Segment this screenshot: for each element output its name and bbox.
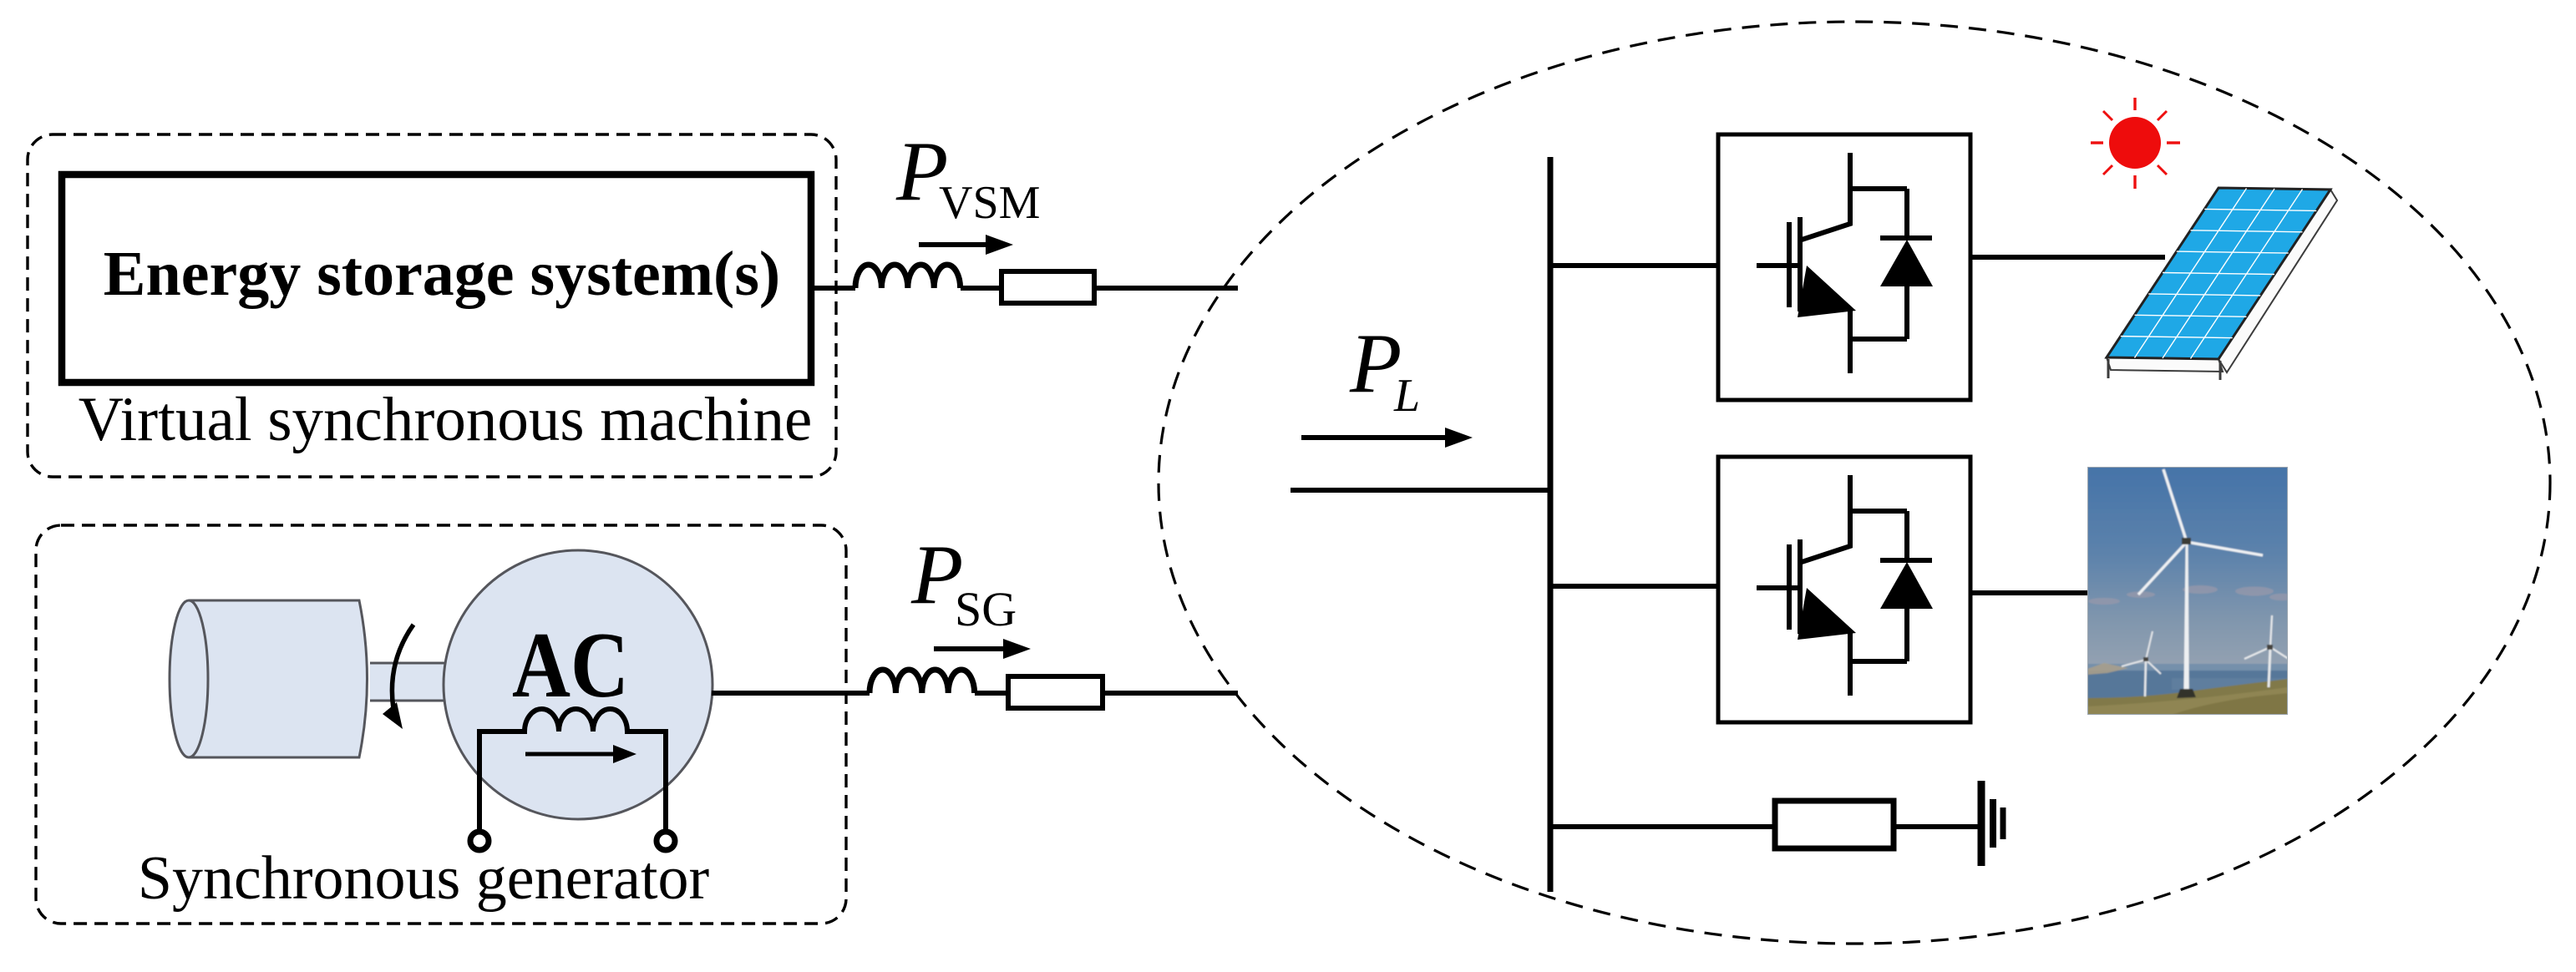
resistor R SG: [1008, 676, 1103, 708]
solar panel: [2107, 188, 2337, 380]
resistor R VSM: [1001, 271, 1094, 303]
wire: [975, 691, 1006, 696]
AC machine circle: [444, 550, 712, 819]
arrow P_VSM: [919, 242, 990, 247]
wire: [1896, 824, 1981, 829]
svg-text:Energy storage system(s): Energy storage system(s): [104, 239, 780, 309]
svg-text:VSM: VSM: [939, 177, 1040, 229]
wire branch 1: [1550, 263, 1718, 268]
arrow P_L: [1301, 435, 1449, 440]
winding arrow: [525, 752, 619, 757]
bus: [1548, 157, 1554, 892]
converter box 2: [1718, 457, 1970, 722]
main turbine: [2183, 544, 2188, 691]
svg-text:SG: SG: [955, 582, 1017, 636]
wind turbine photo: [2087, 467, 2295, 715]
converter box 1: [1718, 134, 1970, 400]
arrow P_SG: [934, 646, 1007, 651]
terminal right: [657, 832, 675, 850]
wire P_L: [1291, 488, 1550, 493]
svg-text:Virtual synchronous machine: Virtual synchronous machine: [79, 385, 813, 454]
sun: [2091, 98, 2180, 189]
wire: [1105, 691, 1238, 696]
energy storage rect: [62, 175, 811, 382]
ground shading under hill: [2172, 693, 2288, 715]
terminal left: [470, 832, 489, 850]
svg-text:Synchronous generator: Synchronous generator: [138, 844, 709, 913]
inductor L VSM: [855, 265, 961, 288]
clouds: [2088, 585, 2295, 605]
svg-text:AC: AC: [512, 614, 629, 717]
VSM dashed box: [28, 134, 836, 477]
shaft: [370, 663, 445, 701]
wire branch 2: [1550, 584, 1719, 589]
prime mover cylinder: [189, 600, 368, 757]
field winding: [479, 709, 666, 831]
ground: [1978, 781, 1985, 866]
wire to solar panel: [1970, 255, 2165, 260]
SG dashed box: [36, 525, 846, 924]
inductor L SG: [870, 670, 975, 693]
microgrid ellipse: [1159, 22, 2550, 944]
rotation arrow: [392, 625, 413, 709]
wire VSM output: [811, 286, 855, 291]
wire SG output: [712, 691, 870, 696]
load resistor: [1775, 801, 1894, 848]
sea: [2087, 664, 2288, 715]
left small turbine: [2122, 631, 2161, 696]
grass: [2087, 679, 2288, 715]
wire: [961, 286, 1001, 291]
right small turbine: [2244, 615, 2291, 687]
wire branch 3: [1550, 824, 1775, 829]
wire to wind turbine: [1970, 590, 2093, 595]
svg-text:L: L: [1393, 370, 1420, 422]
wire: [1097, 286, 1238, 291]
